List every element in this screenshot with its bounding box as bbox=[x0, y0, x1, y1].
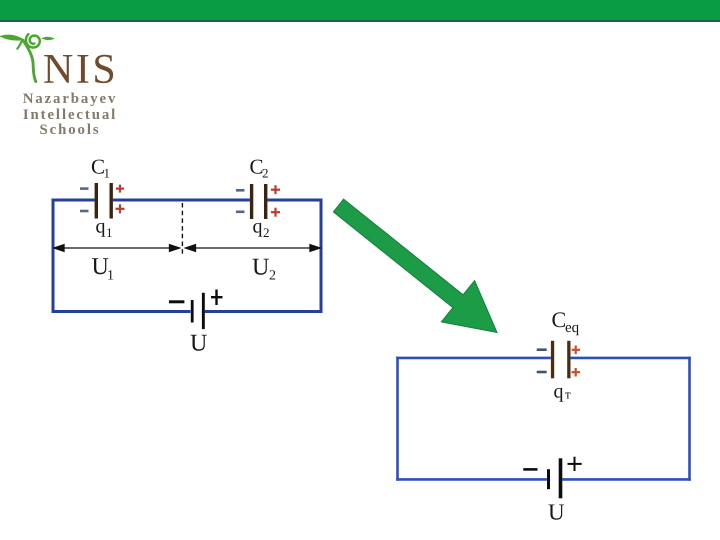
battery negative sign bbox=[169, 300, 184, 303]
svg-text:1: 1 bbox=[104, 166, 111, 181]
wire: right loop bottom-right segment bbox=[562, 478, 691, 481]
logo caption bbox=[10, 92, 130, 139]
battery positive sign (right) bbox=[568, 457, 582, 471]
svg-text:U: U bbox=[190, 331, 207, 357]
node divider dashed line bbox=[181, 203, 183, 256]
wire: left loop bottom-left segment bbox=[52, 310, 191, 313]
wire: left loop bottom-right segment bbox=[205, 310, 323, 313]
label q1 bbox=[96, 216, 113, 241]
label q2 bbox=[253, 216, 270, 241]
svg-text:q: q bbox=[554, 381, 564, 403]
wire: left loop top segment C (C2 to right wire) bbox=[267, 199, 322, 202]
wire: right loop bottom-left segment bbox=[396, 478, 547, 481]
wire: left loop top segment B (C1 to C2) bbox=[113, 199, 250, 202]
wire: left loop right side bbox=[320, 199, 323, 314]
label C2 bbox=[250, 155, 269, 181]
dimension arrow U1 bbox=[54, 245, 180, 252]
label U2 bbox=[252, 255, 276, 284]
svg-text:1: 1 bbox=[107, 269, 114, 284]
header bar bbox=[0, 0, 720, 22]
svg-text:т: т bbox=[565, 387, 571, 402]
C2 negative signs bbox=[236, 190, 245, 212]
svg-text:1: 1 bbox=[106, 225, 113, 240]
C2 positive signs bbox=[271, 185, 280, 217]
capacitor C2 bbox=[250, 184, 268, 219]
capacitor Ceq bbox=[551, 341, 571, 379]
svg-text:U: U bbox=[548, 500, 565, 525]
wire: right loop left side bbox=[396, 357, 399, 481]
svg-text:2: 2 bbox=[262, 166, 269, 181]
capacitor C1 bbox=[95, 183, 113, 219]
svg-text:2: 2 bbox=[263, 225, 270, 240]
svg-text:2: 2 bbox=[269, 269, 276, 284]
Ceq negative signs bbox=[537, 350, 547, 372]
label C1 bbox=[91, 155, 110, 181]
wire: right loop top segment B (Ceq to right wire) bbox=[571, 357, 691, 360]
Ceq positive signs bbox=[572, 346, 581, 377]
label qT (total charge) bbox=[554, 381, 572, 403]
svg-text:C: C bbox=[552, 307, 567, 332]
svg-text:U: U bbox=[252, 255, 269, 281]
svg-text:q: q bbox=[253, 216, 263, 238]
transition arrow bbox=[333, 199, 497, 332]
dimension arrow U2 bbox=[186, 245, 321, 252]
wire: left loop left side bbox=[52, 199, 55, 314]
label Ceq bbox=[552, 307, 580, 336]
wire: left loop top segment A (left wire to C1) bbox=[52, 199, 95, 202]
C1 positive signs bbox=[116, 185, 125, 214]
svg-text:q: q bbox=[96, 216, 106, 238]
C1 negative signs bbox=[80, 189, 89, 211]
logo text NIS bbox=[43, 46, 118, 94]
battery negative sign (right) bbox=[523, 468, 537, 471]
wire: right loop top segment A (left wire to Ceq) bbox=[396, 357, 551, 360]
battery U (left circuit) bbox=[191, 293, 205, 329]
wire: right loop right side bbox=[688, 357, 691, 481]
battery U (right circuit) bbox=[547, 458, 562, 498]
label U1 bbox=[92, 254, 115, 284]
svg-text:eq: eq bbox=[565, 320, 580, 336]
battery positive sign bbox=[211, 290, 223, 306]
NIS logo sprout bbox=[0, 0, 70, 95]
